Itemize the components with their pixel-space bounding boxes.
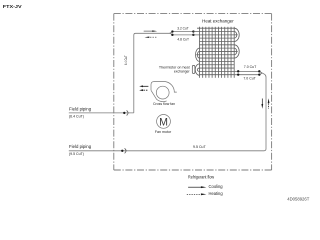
node HX entry top (192, 30, 194, 32)
right drop pipe (wire) (262, 73, 266, 151)
air outlet arrow dashed (139, 89, 148, 91)
svg-text:(6.4 CuT): (6.4 CuT) (69, 113, 84, 118)
u-turn left group 1 (196, 48, 200, 61)
tube stubs (234, 34, 238, 36)
cooling flow arrow right pipe (down) (261, 99, 263, 109)
svg-text:Cooling: Cooling (209, 184, 224, 189)
fan motor (157, 115, 171, 129)
node split left bottom (171, 34, 173, 36)
left riser pipe (wire) (134, 33, 170, 113)
HX exit pipes (wire) (234, 71, 262, 74)
svg-text:Field piping: Field piping (69, 106, 92, 111)
thermistor on heat exchanger (192, 65, 195, 73)
tube pass lines (197, 27, 234, 29)
node exit right top (258, 70, 260, 72)
distributor split (170, 32, 194, 35)
svg-text:Heat exchanger: Heat exchanger (202, 18, 234, 23)
u-turn left group 2 (195, 64, 199, 75)
heat exchanger fins (200, 27, 235, 78)
flare connection liquid (123, 110, 128, 115)
svg-text:4.8 CuT: 4.8 CuT (177, 38, 189, 42)
u-turn right group 2 (234, 45, 239, 58)
svg-text:FTX-JV: FTX-JV (3, 4, 23, 9)
node exit left top (237, 70, 239, 72)
svg-text:Refrigerant flow: Refrigerant flow (188, 175, 215, 180)
thermistor label (159, 64, 191, 73)
svg-text:Fan motor: Fan motor (155, 129, 172, 134)
node exit right bottom (258, 73, 260, 75)
field piping gas line (wire) (69, 150, 264, 152)
svg-text:(9.5 CuT): (9.5 CuT) (69, 151, 84, 156)
svg-text:6.4 CuT: 6.4 CuT (124, 55, 128, 65)
svg-text:7.0 CuT: 7.0 CuT (244, 65, 256, 69)
air outlet arrow solid (139, 85, 148, 87)
svg-text:Field piping: Field piping (69, 144, 92, 149)
heating flow arrow top (dashed) (145, 36, 157, 38)
legend heating (187, 191, 223, 196)
svg-text:Cross flow fan: Cross flow fan (153, 101, 175, 106)
cross flow fan (151, 82, 177, 102)
flare connection gas (121, 148, 126, 153)
heating flow arrow right pipe (dashed up) (268, 98, 270, 108)
node HX entry bottom (192, 34, 194, 36)
legend cooling (188, 184, 223, 189)
field piping liquid line (wire) (69, 112, 134, 114)
u-turn right group 1 (234, 28, 239, 41)
svg-text:9.5 CuT: 9.5 CuT (193, 145, 206, 149)
svg-text:7.0 CuT: 7.0 CuT (243, 77, 255, 81)
svg-text:Heating: Heating (209, 191, 224, 196)
svg-text:3.2 CuT: 3.2 CuT (177, 26, 188, 30)
cooling flow arrow top (144, 30, 158, 32)
svg-text:exchanger: exchanger (174, 69, 190, 74)
svg-text:M: M (159, 116, 168, 128)
field piping gas line label (69, 144, 92, 156)
indoor unit boundary (dash-dot box) (114, 14, 272, 170)
heat exchanger serpentine tube (193, 28, 239, 75)
node split left top (171, 30, 173, 32)
field piping liquid line label (69, 106, 92, 118)
svg-text:4D058926T: 4D058926T (287, 196, 310, 201)
node exit left bottom (237, 73, 239, 75)
